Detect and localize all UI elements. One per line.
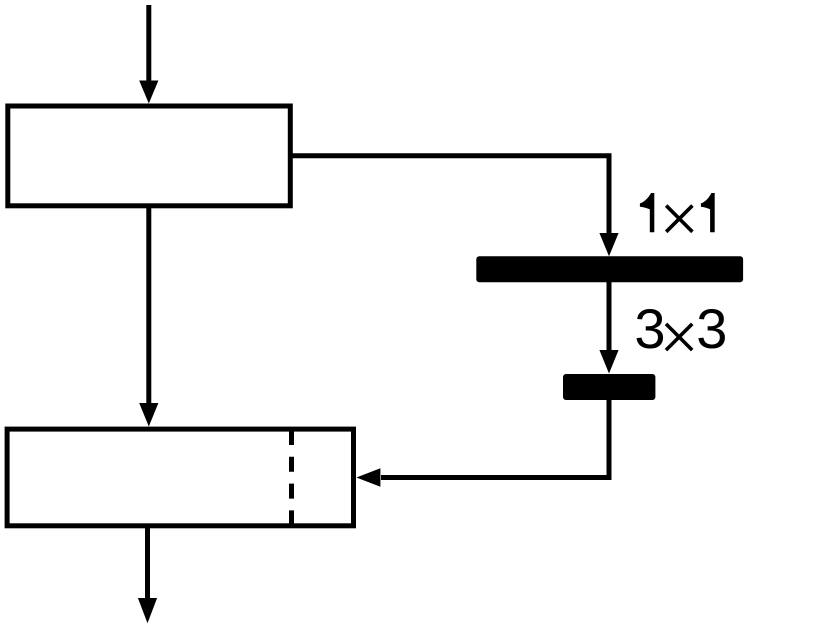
label 3x3 <box>634 297 727 363</box>
svg-text:3: 3 <box>696 297 727 360</box>
wire input arrow into top block <box>139 5 158 104</box>
wire from 1x1 conv to 3x3 conv <box>599 280 618 374</box>
wire output arrow from bottom block <box>138 526 157 623</box>
node 1x1 conv bar <box>476 256 743 282</box>
wire from 3x3 conv down and left into bottom block <box>356 399 609 487</box>
wire from top block right edge to 1x1 conv <box>292 156 619 256</box>
label 1x1 <box>640 192 715 244</box>
svg-text:3: 3 <box>634 297 665 360</box>
node bottom block (rectangle) <box>7 429 353 526</box>
dashed concatenation divider inside bottom block <box>289 430 294 527</box>
node top block (rectangle) <box>8 106 291 206</box>
node 3x3 conv bar <box>563 374 655 400</box>
wire arrow from top block down to bottom block <box>139 206 158 427</box>
